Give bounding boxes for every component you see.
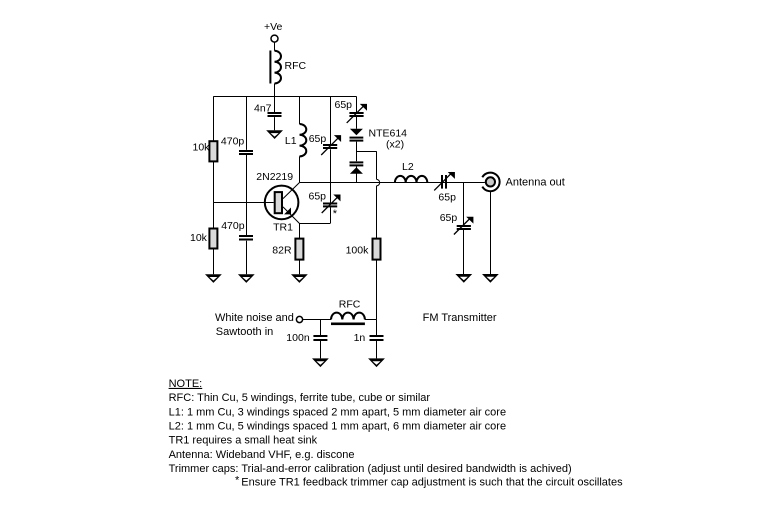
wire tank trimmer to collector line	[330, 149, 332, 182]
svg-text:FM Transmitter: FM Transmitter	[423, 312, 497, 324]
wire junction to shunt trimmer	[463, 182, 465, 225]
svg-text:RFC: RFC	[339, 298, 361, 310]
+Ve terminal	[271, 35, 278, 42]
antenna connector (inner pin)	[486, 177, 495, 186]
svg-text:TR1 requires a small heat sink: TR1 requires a small heat sink	[169, 435, 318, 447]
svg-text:RFC: Thin Cu, 5 windings, ferr: RFC: Thin Cu, 5 windings, ferrite tube, …	[169, 392, 431, 404]
svg-text:RFC: RFC	[285, 60, 307, 72]
wire D2 to output line	[356, 166, 358, 182]
svg-text:Antenna: Wideband VHF, e.g. di: Antenna: Wideband VHF, e.g. discone	[169, 449, 355, 461]
varactor diode D1 NTE614	[350, 129, 363, 136]
wire antenna to ground	[490, 192, 492, 274]
wire input to RFC2	[303, 319, 331, 321]
wire 1n tap	[376, 319, 378, 335]
wire bus end to varactor trimmer	[356, 96, 358, 112]
wire RFC to bus	[274, 84, 276, 97]
wire emitter line	[299, 223, 330, 225]
svg-text:100n: 100n	[286, 332, 310, 344]
wire base to lower 10k	[213, 203, 215, 229]
wire hop to 100k	[376, 186, 378, 239]
svg-text:65p: 65p	[309, 133, 327, 145]
wire varactor mid to hop	[376, 151, 378, 179]
wire 100k to RFC node	[376, 260, 378, 320]
wire 100n tap	[320, 319, 322, 335]
svg-text:*: *	[235, 474, 240, 486]
svg-text:L1: L1	[285, 135, 297, 147]
ground (4n7)	[266, 130, 283, 139]
wire +Ve to RFC	[274, 42, 276, 50]
wire collector to feedback trimmer	[330, 182, 332, 202]
input terminal	[296, 316, 302, 322]
ground (1n)	[368, 358, 385, 367]
svg-text:White noise and: White noise and	[215, 312, 294, 324]
wire 82R to ground	[299, 260, 301, 275]
svg-text:10k: 10k	[193, 142, 211, 154]
wire D1 to D2	[356, 142, 358, 162]
wire hop over output line	[377, 179, 380, 185]
wire 470p to base line	[246, 155, 248, 235]
inductor RFC (top, ferrite core)	[275, 51, 282, 84]
wire varactor mid branch	[356, 151, 376, 153]
svg-text:100k: 100k	[346, 244, 370, 256]
trimmer capacitor 65p (series output)	[441, 175, 443, 189]
svg-text:65p: 65p	[309, 191, 327, 203]
ground (10k)	[205, 274, 222, 283]
resistor R 10k (upper)	[209, 141, 217, 161]
ground (82R)	[291, 274, 308, 283]
wire top bus	[213, 96, 356, 98]
svg-text:(x2): (x2)	[386, 139, 404, 151]
wire feedback trimmer to emitter line	[330, 207, 332, 223]
wire 470p column top	[246, 96, 248, 149]
svg-text:470p: 470p	[221, 220, 245, 232]
wire 1n to ground	[376, 341, 378, 358]
svg-text:65p: 65p	[440, 212, 458, 224]
wire bus to 4n7	[274, 96, 276, 112]
svg-text:L2: L2	[402, 161, 414, 173]
svg-text:L2: 1 mm Cu, 5 windings spaced: L2: 1 mm Cu, 5 windings spaced 1 mm apar…	[169, 421, 506, 433]
svg-text:Antenna out: Antenna out	[506, 176, 565, 188]
svg-text:82R: 82R	[272, 244, 292, 256]
wire 4n7 to ground	[274, 117, 276, 130]
resistor R 10k (lower)	[209, 229, 217, 249]
wire 10k to base line	[213, 161, 215, 202]
wire bus to tank trimmer	[330, 96, 332, 144]
wire lower 10k to ground	[213, 249, 215, 275]
ground (antenna)	[482, 274, 499, 283]
svg-text:Trimmer caps: Trial-and-error: Trimmer caps: Trial-and-error calibratio…	[169, 463, 572, 475]
ground (shunt trimmer)	[455, 274, 472, 283]
svg-text:NOTE:: NOTE:	[169, 378, 203, 390]
svg-text:2N2219: 2N2219	[256, 171, 293, 183]
svg-text:+Ve: +Ve	[264, 21, 283, 33]
svg-text:*: *	[333, 208, 338, 220]
wire trimmer to varactor D1	[356, 117, 358, 129]
ground (100n)	[312, 358, 329, 367]
wire shunt trimmer to ground	[463, 230, 465, 274]
svg-text:65p: 65p	[335, 99, 353, 111]
antenna connector (outer ring)	[482, 173, 499, 192]
wire RFC2 to 1n node	[365, 319, 377, 321]
svg-text:TR1: TR1	[273, 222, 293, 234]
svg-text:Sawtooth in: Sawtooth in	[216, 326, 273, 338]
ground (470p)	[238, 274, 255, 283]
wire base node line	[213, 202, 273, 204]
svg-text:Ensure TR1 feedback trimmer ca: Ensure TR1 feedback trimmer cap adjustme…	[241, 477, 623, 489]
wire bus to L1	[299, 96, 301, 124]
wire collector output line	[299, 182, 485, 184]
svg-text:10k: 10k	[190, 232, 208, 244]
wire emitter to 82R	[299, 223, 301, 238]
wire L1 to collector node	[299, 156, 301, 182]
svg-text:L1: 1 mm Cu, 3 windings spaced: L1: 1 mm Cu, 3 windings spaced 2 mm apar…	[169, 406, 506, 418]
wire left column top	[213, 96, 215, 141]
svg-text:1n: 1n	[354, 332, 366, 344]
wire 100n to ground	[320, 341, 322, 358]
svg-text:65p: 65p	[438, 191, 456, 203]
svg-text:470p: 470p	[221, 135, 245, 147]
wire lower 470p to ground	[246, 241, 248, 274]
varactor diode D2 NTE614	[350, 161, 364, 163]
